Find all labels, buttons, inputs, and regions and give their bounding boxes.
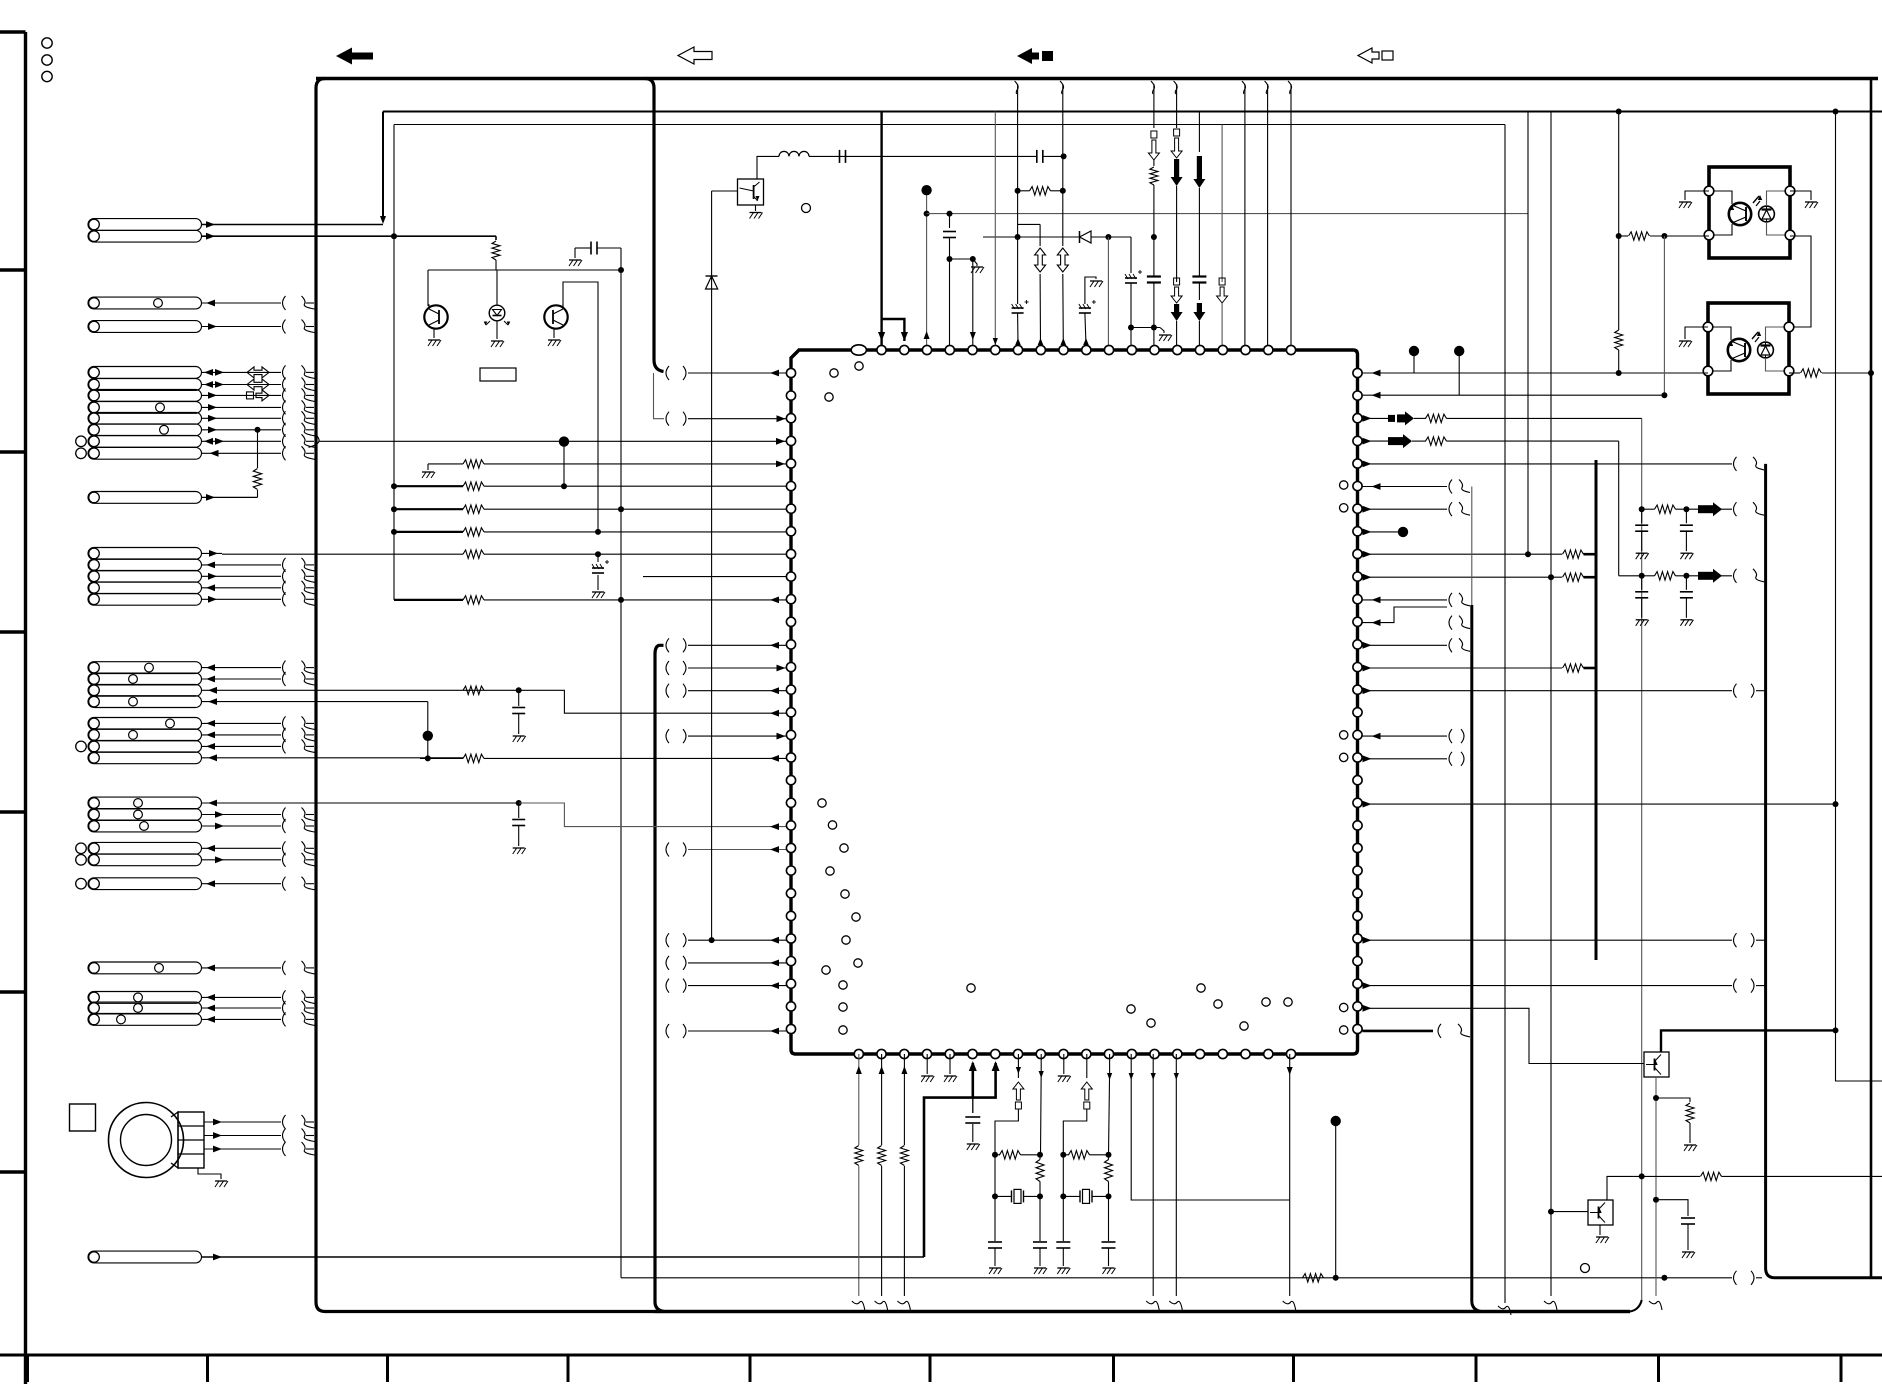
IC inner circle right bbox=[1340, 504, 1348, 512]
row k13 wire bbox=[666, 661, 669, 675]
toroid bracket bbox=[171, 1112, 178, 1168]
wire rail x1871 thick bbox=[1870, 79, 1873, 1278]
left border tick bbox=[0, 268, 27, 271]
IC top pin 9 bbox=[1059, 345, 1068, 354]
bottom gnd j3 bbox=[926, 1054, 928, 1074]
IC right pin 4 bbox=[1353, 459, 1362, 468]
IC left pin 11 bbox=[786, 617, 795, 626]
IC left pin 22 bbox=[786, 866, 795, 875]
wire rail x1596 thick bbox=[1595, 460, 1598, 960]
col x1244 bbox=[1242, 81, 1246, 94]
CN2 wire A bbox=[202, 302, 282, 304]
right k11 wire bbox=[1372, 619, 1381, 626]
IC top pin 19 bbox=[1286, 345, 1295, 354]
IC left pin 15 bbox=[786, 708, 795, 717]
IC right pin 2 bbox=[1353, 414, 1362, 423]
left border tick bbox=[0, 990, 27, 993]
col x1131 bbox=[1130, 237, 1132, 273]
row k26 wire bbox=[666, 956, 669, 970]
CN6 wire 4 (long) bbox=[202, 701, 428, 703]
transistor Q5 box bbox=[1588, 1200, 1613, 1225]
IC inner circle right bbox=[1340, 1026, 1348, 1034]
IC bottom pin 3 bbox=[922, 1049, 931, 1058]
inductor FL1 bbox=[779, 151, 809, 156]
connector CN1 pill A bbox=[88, 219, 202, 231]
transistor Q1 bbox=[427, 270, 429, 306]
crystal X1 group bbox=[995, 1154, 1000, 1156]
IC right pin 23 bbox=[1353, 889, 1362, 898]
right k12 wire bbox=[1363, 642, 1372, 649]
CN6 wire 2 bbox=[202, 678, 282, 680]
col x1291 bbox=[1288, 81, 1292, 94]
IC right pin 7 bbox=[1353, 527, 1362, 536]
IC right pin 10 bbox=[1353, 595, 1362, 604]
left border tick bbox=[0, 810, 27, 813]
crystal X2 group bbox=[1063, 1154, 1069, 1156]
col x1199 bbox=[1198, 112, 1200, 153]
IC inner circle bbox=[818, 799, 826, 807]
IC right pin 19 bbox=[1353, 798, 1362, 807]
row k6 wire bbox=[394, 508, 463, 510]
IC inner circle bbox=[842, 936, 850, 944]
wire rail x711 bbox=[711, 191, 713, 940]
connector CN5 pill 1 bbox=[88, 548, 202, 560]
bottom col j7 bbox=[1017, 1054, 1019, 1078]
CN7 wire 3 bbox=[202, 745, 282, 747]
connector CN5 pill 5 bbox=[88, 593, 202, 605]
res R40 bbox=[1303, 1274, 1324, 1282]
transistor Q3 box bbox=[738, 179, 764, 205]
bottom col j2 bbox=[903, 1054, 905, 1145]
IC left pin 4 bbox=[786, 459, 795, 468]
CN5 wire 5 bbox=[202, 598, 282, 600]
row k4 wire bbox=[427, 464, 429, 470]
IC right pin 17 bbox=[1353, 753, 1362, 762]
wire rail x1551 bbox=[1550, 112, 1552, 1297]
connector CN8 pill 2 bbox=[88, 809, 202, 821]
IC right pin 14 bbox=[1353, 685, 1362, 694]
left border tick bbox=[0, 1170, 27, 1173]
connector CN3 pill 5 bbox=[88, 412, 202, 424]
transistor Q4 box bbox=[1644, 1052, 1669, 1077]
IC left pin 17 bbox=[786, 753, 795, 762]
IC inner circle bbox=[839, 1026, 847, 1034]
Q5 emitter gnd bbox=[1599, 1225, 1601, 1235]
row k0 wire bbox=[666, 366, 669, 380]
IC inner circle right bbox=[1340, 753, 1348, 761]
connector CN6 pill 1 bbox=[88, 662, 202, 674]
sheet arrow 3 (filled left + square) bbox=[1017, 48, 1039, 64]
row k16 wire bbox=[666, 729, 669, 743]
bottom long col j19 bbox=[1289, 1054, 1291, 1296]
IC top pin 12 bbox=[1127, 345, 1136, 354]
cap C14 bbox=[518, 803, 520, 818]
node y259 bbox=[950, 258, 973, 260]
connector CN3 pill 6 bbox=[88, 424, 202, 436]
right k2 wire bbox=[1363, 415, 1372, 422]
bottom col j12 bbox=[1131, 1054, 1290, 1200]
row k21 wire bbox=[666, 843, 669, 857]
CN11 wire bbox=[202, 967, 282, 969]
IC right pin 0 bbox=[1353, 368, 1362, 377]
IC right pin 22 bbox=[1353, 866, 1362, 875]
IC top pin 18 bbox=[1264, 345, 1273, 354]
IC inner circle bbox=[839, 1003, 847, 1011]
sheet ref circles bbox=[42, 38, 52, 48]
bottom border tick bbox=[1475, 1355, 1478, 1382]
right k3 wire bbox=[1363, 438, 1372, 445]
wire rail x1766 thick bbox=[1764, 464, 1767, 1268]
wire x949 low bbox=[949, 259, 951, 345]
col x995 gray bbox=[994, 112, 996, 346]
IC right pin 12 bbox=[1353, 640, 1362, 649]
connector CN12 pill 3 bbox=[88, 1014, 202, 1026]
CN7 wire 2 bbox=[202, 734, 282, 736]
ecap CE4 bbox=[1017, 237, 1019, 304]
node bus y270 bbox=[428, 269, 621, 271]
right k4 wire bbox=[1363, 461, 1372, 468]
jog x1017 bbox=[1018, 223, 1041, 225]
row k7 wire bbox=[394, 531, 463, 533]
right k10 wire bbox=[1372, 597, 1381, 604]
row k14 wire bbox=[666, 684, 669, 698]
row k5 wire bbox=[394, 485, 463, 487]
route k3 down bbox=[1618, 441, 1620, 576]
IC inner circle bbox=[840, 844, 848, 852]
IC left pin 7 bbox=[786, 527, 795, 536]
IC inner circle bbox=[826, 867, 834, 875]
wire L2 corner bbox=[382, 112, 384, 222]
IC left pin 24 bbox=[786, 911, 795, 920]
IC bottom pin 17 bbox=[1241, 1049, 1250, 1058]
optocoupler PC1 bbox=[1709, 167, 1790, 258]
IC inner circle bbox=[1240, 1022, 1248, 1030]
connector CN6 pill 3 bbox=[88, 684, 202, 696]
row k12 wire bbox=[666, 638, 669, 652]
IC inner circle right bbox=[1340, 1003, 1348, 1011]
col x1017 bbox=[1015, 81, 1019, 94]
CN8 wire 1 (long) bbox=[202, 802, 519, 804]
IC inner circle bbox=[1214, 1000, 1222, 1008]
CN3 wire 2 bbox=[202, 384, 282, 386]
CN5 wire 2 bbox=[202, 564, 282, 566]
connector CN3 pill 2 bbox=[88, 379, 202, 391]
IC right pin 15 bbox=[1353, 708, 1362, 717]
connector CN5 pill 3 bbox=[88, 570, 202, 582]
toroid wire 1 bbox=[204, 1121, 281, 1123]
wire x972 low bbox=[972, 259, 974, 345]
right k1 wire bbox=[1363, 394, 1665, 396]
connector CN10 pill bbox=[88, 878, 202, 890]
IC left pin 12 bbox=[786, 640, 795, 649]
bottom border tick bbox=[206, 1355, 209, 1382]
toroid pad square bbox=[70, 1104, 96, 1131]
PC1 gnd right bbox=[1790, 191, 1811, 200]
toroid ground bbox=[198, 1168, 221, 1179]
IC bottom pin 5 bbox=[968, 1049, 977, 1058]
Q2 ground bbox=[553, 329, 555, 338]
IC left pin 14 bbox=[786, 685, 795, 694]
IC left pin 23 bbox=[786, 889, 795, 898]
IC inner circle bbox=[839, 981, 847, 989]
IC top pin 0 (oval) bbox=[851, 345, 866, 355]
bottom border tick bbox=[26, 1355, 29, 1382]
top bus line L2 bbox=[383, 111, 1882, 113]
connector CN3 pill 1 bbox=[88, 367, 202, 379]
optocoupler PC2 bbox=[1708, 303, 1789, 394]
wire C11 to node bbox=[620, 248, 622, 270]
IC bottom pin 6 bbox=[991, 1049, 1000, 1058]
cap C22 bbox=[943, 231, 956, 233]
CN5 wire 3 bbox=[202, 575, 282, 577]
connector CN5 pill 4 bbox=[88, 582, 202, 594]
IC inner circle bbox=[1262, 998, 1270, 1006]
caps cluster row1 bbox=[1639, 506, 1645, 512]
CN12 wire 1 bbox=[202, 996, 282, 998]
wire rail x621 bbox=[620, 270, 622, 1278]
IC left pin 28 bbox=[786, 1002, 795, 1011]
left module bus left+bottom bbox=[316, 79, 1630, 1312]
row k27 wire bbox=[666, 979, 669, 993]
CN10 wire bbox=[202, 883, 282, 885]
IC bottom pin 9 bbox=[1059, 1049, 1068, 1058]
page bottom border bbox=[0, 1354, 1882, 1357]
IC inner circle bbox=[1127, 1005, 1135, 1013]
IC right pin 28 bbox=[1353, 1002, 1362, 1011]
IC bottom pin 13 bbox=[1150, 1049, 1159, 1058]
CN5 wire 4 bbox=[202, 587, 282, 589]
IC bottom pin 15 bbox=[1195, 1049, 1204, 1058]
connector CN8 pill 3 bbox=[88, 820, 202, 832]
wire L3 corner bbox=[393, 125, 395, 600]
top bus line L3 bbox=[394, 124, 1505, 126]
bottom border tick bbox=[386, 1355, 389, 1382]
IC bottom pin 19 bbox=[1286, 1049, 1295, 1058]
wire rail x1471 bbox=[1471, 487, 1473, 606]
IC right pin 25 bbox=[1353, 934, 1362, 943]
IC left pin 25 bbox=[786, 934, 795, 943]
IC bottom pin 16 bbox=[1218, 1049, 1227, 1058]
right k13 wire bbox=[1363, 665, 1372, 672]
CN6 wire 3 (long) bbox=[202, 689, 464, 691]
CN8 wire 2 bbox=[202, 814, 282, 816]
col x1063 bbox=[1060, 81, 1064, 94]
IC top pin 8 bbox=[1036, 345, 1045, 354]
CN7 wire 1 bbox=[202, 722, 282, 724]
row k9 wire bbox=[643, 576, 786, 578]
bottom border tick bbox=[1112, 1355, 1115, 1382]
res R20 bbox=[1030, 187, 1051, 195]
connector CN2 pill A bbox=[88, 297, 202, 309]
IC left pin 29 bbox=[786, 1024, 795, 1033]
PC1 gnd left bbox=[1685, 191, 1709, 200]
IC bottom pin 2 bbox=[900, 1049, 909, 1058]
Q5 collector bbox=[1607, 1176, 1700, 1200]
IC left pin 26 bbox=[786, 957, 795, 966]
Q1 ground bbox=[433, 329, 435, 338]
connector CN9 pill 2 bbox=[88, 854, 202, 866]
CN2 wire B bbox=[202, 326, 282, 328]
bottom col j11 bbox=[1109, 1054, 1111, 1072]
IC right pin 5 bbox=[1353, 482, 1362, 491]
left module bus right-top segment bbox=[645, 79, 664, 372]
row k20 wire bbox=[516, 800, 522, 806]
IC top pin 1 bbox=[877, 345, 886, 354]
IC left pin 21 bbox=[786, 843, 795, 852]
IC right pin 26 bbox=[1353, 957, 1362, 966]
LED D1 bbox=[496, 270, 498, 305]
connector CN8 pill 1 bbox=[88, 797, 202, 809]
cap C30 bbox=[972, 1098, 974, 1113]
wire R10 bottom bbox=[495, 260, 497, 270]
IC top pin 5 bbox=[968, 345, 977, 354]
right k0 wire bbox=[1363, 372, 1619, 374]
IC top pin 6 bbox=[991, 345, 1000, 354]
toroid core inner bbox=[121, 1115, 172, 1166]
IC top pin 17 bbox=[1241, 345, 1250, 354]
IC left pin 9 bbox=[786, 572, 795, 581]
bottom border tick bbox=[749, 1355, 752, 1382]
right k29 wire bbox=[1363, 1030, 1434, 1033]
row k29 wire bbox=[666, 1024, 669, 1038]
IC right pin 21 bbox=[1353, 843, 1362, 852]
left border tick bbox=[0, 630, 27, 633]
IC right pin 3 bbox=[1353, 436, 1362, 445]
IC inner circle bbox=[825, 393, 833, 401]
IC top pin 7 bbox=[1013, 345, 1022, 354]
IC left pin 5 bbox=[786, 482, 795, 491]
IC inner circle bbox=[852, 913, 860, 921]
bottom border tick bbox=[1840, 1355, 1843, 1382]
PC2 gnd left bbox=[1685, 327, 1708, 339]
CN1 wire A bbox=[202, 224, 384, 226]
CN1 wire B bbox=[202, 235, 497, 237]
CN6 wire 1 bbox=[202, 667, 282, 669]
node dot B bbox=[1331, 1116, 1341, 1126]
IC top pin 10 bbox=[1082, 345, 1091, 354]
IC inner circle bbox=[828, 821, 836, 829]
right k27 wire bbox=[1363, 982, 1372, 989]
left border tick top bbox=[0, 30, 26, 33]
connector CN9 pill 1 bbox=[88, 842, 202, 854]
connector CN3 pill 8 bbox=[88, 447, 202, 459]
wire x927 gray bbox=[926, 195, 928, 345]
right k7 wire bbox=[1363, 529, 1372, 536]
IC top pin 2 bbox=[900, 345, 909, 354]
IC top pin 13 bbox=[1150, 345, 1159, 354]
bottom long col bbox=[1175, 1054, 1177, 1296]
bottom long col bbox=[1152, 1054, 1154, 1296]
ecap CE5 bbox=[1085, 277, 1096, 281]
IC inner circle bbox=[822, 966, 830, 974]
IC right pin 20 bbox=[1353, 821, 1362, 830]
res R30 bbox=[1615, 330, 1623, 350]
IC right pin 13 bbox=[1353, 663, 1362, 672]
connector CN2 pill B bbox=[88, 321, 202, 333]
right k19 wire bbox=[1363, 801, 1372, 808]
IC right pin 6 bbox=[1353, 504, 1362, 513]
right k8 wire bbox=[1363, 551, 1372, 558]
col x1153 bbox=[1151, 81, 1155, 94]
connector CN5 pill 2 bbox=[88, 559, 202, 571]
wire y213 gray bbox=[927, 213, 1528, 215]
IC right pin 27 bbox=[1353, 979, 1362, 988]
connector CN7 pill 3 bbox=[88, 741, 202, 753]
CN7 wire 4 (long) bbox=[202, 757, 464, 759]
cap C31 bbox=[1656, 1200, 1688, 1216]
testpoint B bbox=[1581, 1264, 1590, 1273]
connector CN4 pill bbox=[88, 492, 202, 504]
bottom border tick bbox=[567, 1355, 570, 1382]
IC top pin 14 bbox=[1173, 345, 1182, 354]
IC left pin 8 bbox=[786, 549, 795, 558]
Q5 base wire bbox=[1551, 1211, 1588, 1213]
IC inner circle right bbox=[1340, 731, 1348, 739]
IC bottom pin 4 bbox=[945, 1049, 954, 1058]
row k10 wire bbox=[394, 599, 463, 601]
IC right pin 29 bbox=[1353, 1024, 1362, 1033]
PC2 bottom right wire bbox=[1789, 372, 1800, 374]
resistor R-row6 bbox=[257, 430, 259, 468]
CN9 wire 2 bbox=[202, 859, 282, 861]
wire x949 bbox=[949, 214, 951, 228]
CN3 wire 3 bbox=[202, 394, 282, 396]
IC inner circle right bbox=[1340, 481, 1348, 489]
Q3 ground bbox=[755, 205, 757, 211]
PC2 bottom left wire bbox=[1619, 372, 1708, 374]
IC right pin 8 bbox=[1353, 549, 1362, 558]
IC bottom pin 0 bbox=[854, 1049, 863, 1058]
IC right pin 11 bbox=[1353, 617, 1362, 626]
IC top pin 11 bbox=[1104, 345, 1113, 354]
Q4 emitter bbox=[1655, 1077, 1657, 1296]
IC U1 outline bbox=[791, 350, 1358, 1054]
page left border bbox=[24, 32, 27, 1384]
IC left pin 27 bbox=[786, 979, 795, 988]
bottom border tick bbox=[1657, 1355, 1660, 1382]
transistor Q2 bbox=[544, 305, 567, 328]
zener D2 bbox=[706, 275, 718, 277]
right k9 wire bbox=[1363, 574, 1372, 581]
col x1222 gray bbox=[1221, 125, 1223, 283]
caps cluster row2 bbox=[1639, 573, 1645, 579]
IC right pin 24 bbox=[1353, 911, 1362, 920]
IC top pin 16 bbox=[1218, 345, 1227, 354]
CN12 wire 2 bbox=[202, 1007, 282, 1009]
wire rail x1528 bbox=[1527, 112, 1529, 555]
res R41 bbox=[1656, 1098, 1690, 1102]
IC inner circle bbox=[1284, 998, 1292, 1006]
part outline box bbox=[480, 368, 516, 381]
left border tick bbox=[0, 450, 27, 453]
IC left pin 16 bbox=[786, 730, 795, 739]
IC top pin 3 bbox=[922, 345, 931, 354]
CN3 wire 7 bbox=[202, 440, 282, 442]
CN9 wire 1 bbox=[202, 847, 282, 849]
resistor R10 bbox=[492, 241, 500, 260]
wire rail x1505 bbox=[1504, 125, 1506, 1304]
IC inner circle bbox=[830, 369, 838, 377]
IC inner circle bbox=[1147, 1019, 1155, 1027]
IC inner circle bbox=[841, 890, 849, 898]
IC bottom pin 7 bbox=[1013, 1049, 1022, 1058]
IC left pin 13 bbox=[786, 663, 795, 672]
IC bottom pin 1 bbox=[877, 1049, 886, 1058]
IC bottom pin 14 bbox=[1173, 1049, 1182, 1058]
IC inner circle bbox=[855, 362, 863, 370]
connector CN6 pill 2 bbox=[88, 673, 202, 685]
PC1 bottom right wire bbox=[1790, 236, 1811, 327]
